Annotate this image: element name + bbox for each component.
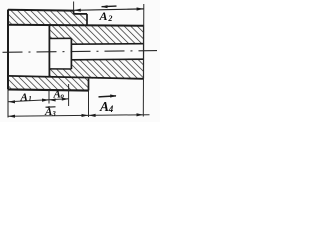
housing left edge [7,10,9,90]
A2 left arrowhead [74,9,81,12]
right extension line full (A2 top to A4 bottom) [142,4,145,117]
gap box top edge [49,37,71,39]
bore end face [48,25,50,77]
flange top edge [74,13,87,15]
A1 right arrowhead [42,99,49,102]
bar/arrow over A3 (points left) [46,106,56,108]
A4 right arrowhead [137,113,144,116]
A4 left arrowhead [89,114,96,117]
A0 right arrowhead [62,98,69,101]
hatched section region (housing + bushing) [8,10,144,91]
A3 right arrowhead [82,114,89,117]
svg-text:1: 1 [28,95,32,103]
A2 extension tick at x=73.5 [73,2,75,11]
left extension line down [7,89,9,117]
svg-text:3: 3 [51,110,56,118]
bore / bushing outer bottom surface [8,76,144,79]
svg-text:2: 2 [107,14,112,23]
step at x=73.5 [73,11,75,14]
dimension A3/A4 line [8,115,150,117]
channel (bushing bore) top line [71,43,144,46]
extension below x=88.5 [88,90,90,117]
gap box bottom edge [49,68,71,70]
housing top edge [8,9,74,12]
A2 right arrowhead [137,7,144,10]
A3 left arrowhead [8,115,15,118]
A0 right extension x=68.5 [68,84,70,106]
vector arrow over A2 (points left) [102,5,117,8]
svg-text:A: A [44,106,52,118]
bore / bushing outer top surface [8,24,144,27]
A1/A0 extension at x=49 below housing [48,90,50,104]
gap box right edge (flange left face) [70,38,72,69]
svg-text:A: A [99,9,108,23]
step at x=88.5 bottom [88,79,90,91]
svg-text:A: A [20,91,28,103]
housing bottom edge [8,89,89,90]
vector arrow over A4 (points right) [99,96,117,97]
step at x=87 [86,14,88,25]
svg-text:o: o [61,92,65,100]
svg-text:A: A [99,99,109,114]
centerline (dash-dot) [3,51,158,53]
dimension A2 line [74,9,144,10]
A0 left arrowhead [49,98,55,101]
bushing right end face [143,25,145,78]
A1 left arrowhead [8,100,15,103]
svg-text:4: 4 [108,104,114,114]
channel bottom line [71,58,144,61]
dimension A1/A0 line [8,99,69,102]
